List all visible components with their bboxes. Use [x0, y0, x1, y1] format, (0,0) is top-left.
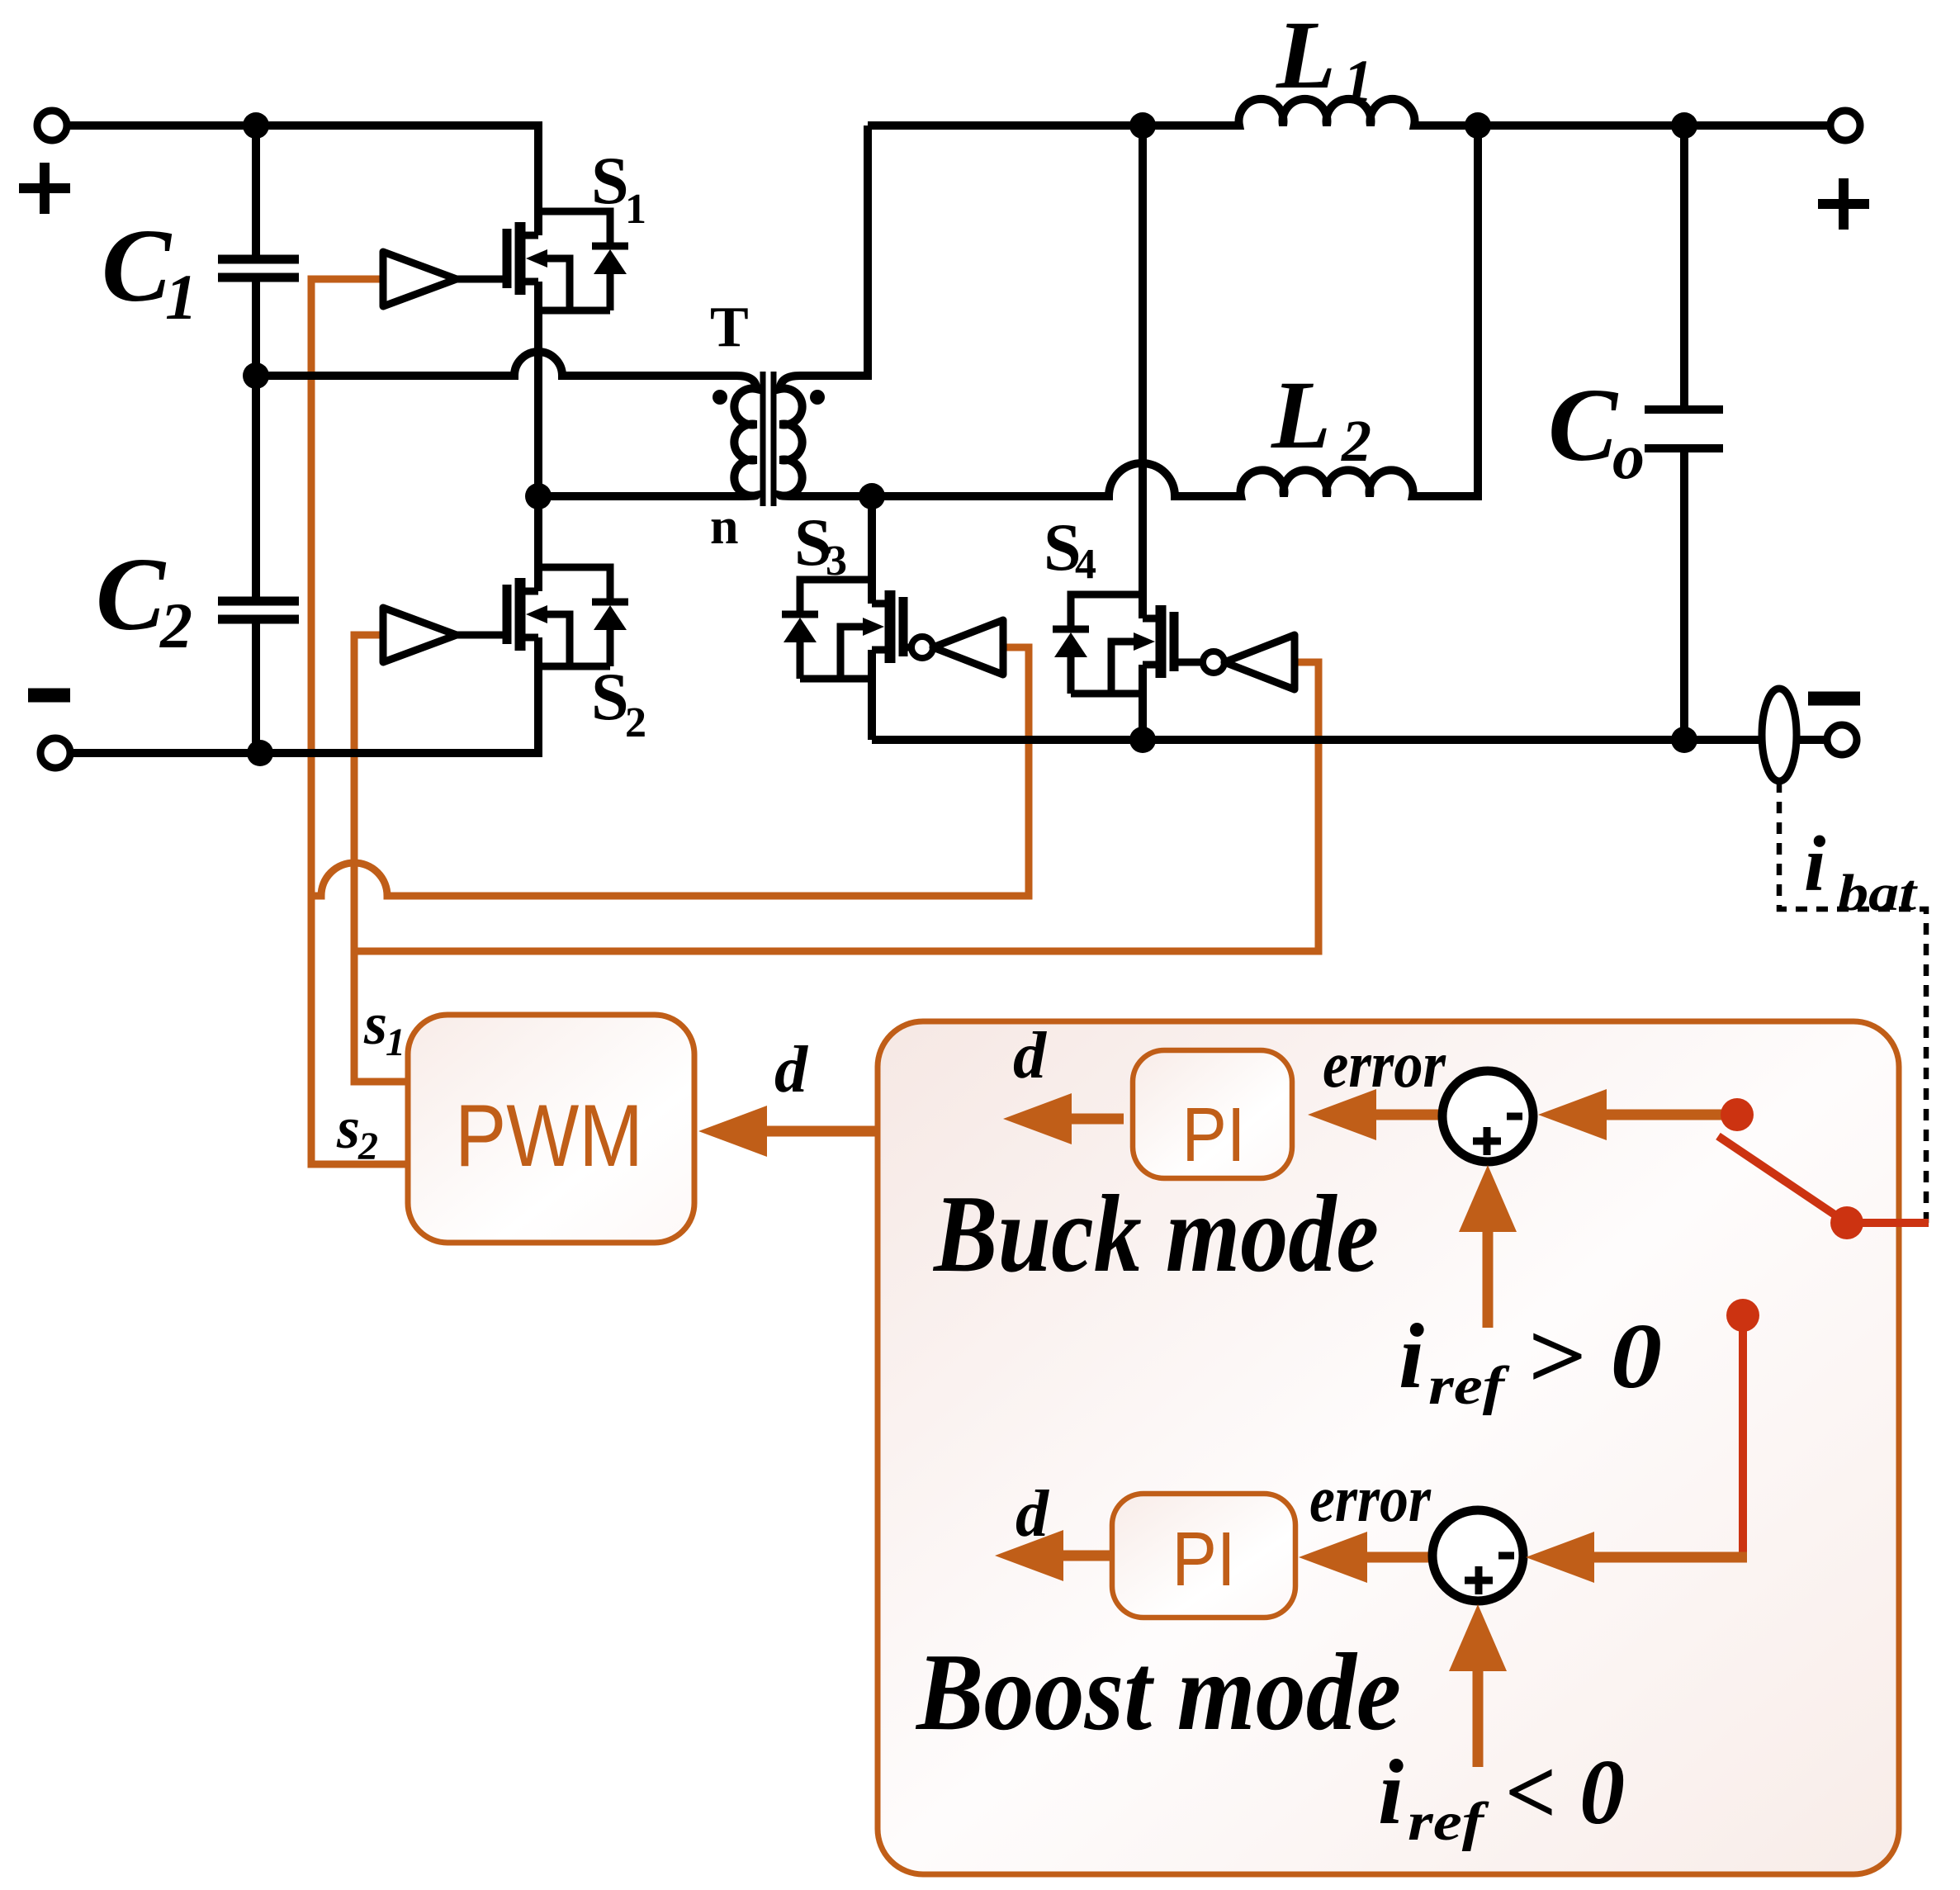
svg-text:C: C	[96, 538, 167, 652]
svg-text:i: i	[1378, 1741, 1404, 1844]
svg-text:C: C	[102, 209, 173, 324]
svg-text:S: S	[591, 143, 629, 218]
svg-text:< 0: < 0	[1505, 1741, 1625, 1844]
svg-text:L: L	[1271, 361, 1331, 469]
svg-text:PI: PI	[1172, 1516, 1236, 1602]
svg-text:Boost mode: Boost mode	[915, 1631, 1401, 1753]
svg-text:L: L	[1276, 1, 1336, 109]
svg-text:i: i	[1804, 820, 1825, 907]
svg-text:2: 2	[159, 590, 192, 661]
svg-text:error: error	[1309, 1463, 1432, 1536]
svg-text:d: d	[1016, 1478, 1049, 1551]
svg-text:i: i	[1399, 1305, 1424, 1408]
svg-text:n: n	[710, 499, 738, 555]
svg-text:1: 1	[625, 186, 646, 233]
svg-text:4: 4	[1075, 541, 1096, 588]
svg-text:2: 2	[1341, 408, 1371, 474]
svg-text:bat: bat	[1838, 865, 1918, 921]
svg-text:1: 1	[1343, 48, 1373, 114]
svg-text:PWM: PWM	[455, 1086, 643, 1185]
svg-text:ref: ref	[1428, 1356, 1510, 1416]
svg-text:Buck mode: Buck mode	[932, 1172, 1379, 1295]
svg-text:S: S	[591, 659, 629, 734]
svg-text:o: o	[1612, 420, 1645, 492]
svg-text:s: s	[363, 991, 387, 1057]
svg-text:C: C	[1548, 368, 1619, 483]
svg-text:s: s	[336, 1095, 360, 1161]
svg-text:> 0: > 0	[1526, 1305, 1662, 1408]
svg-text:PI: PI	[1182, 1092, 1246, 1177]
svg-text:3: 3	[826, 538, 847, 585]
svg-text:1: 1	[386, 1021, 405, 1064]
svg-text:d: d	[1013, 1020, 1047, 1092]
svg-text:d: d	[774, 1034, 808, 1106]
svg-text:error: error	[1323, 1029, 1446, 1101]
svg-text:1: 1	[165, 261, 197, 333]
svg-text:2: 2	[357, 1125, 378, 1168]
svg-text:2: 2	[625, 699, 646, 746]
svg-text:T: T	[710, 296, 749, 359]
svg-text:ref: ref	[1408, 1792, 1489, 1852]
